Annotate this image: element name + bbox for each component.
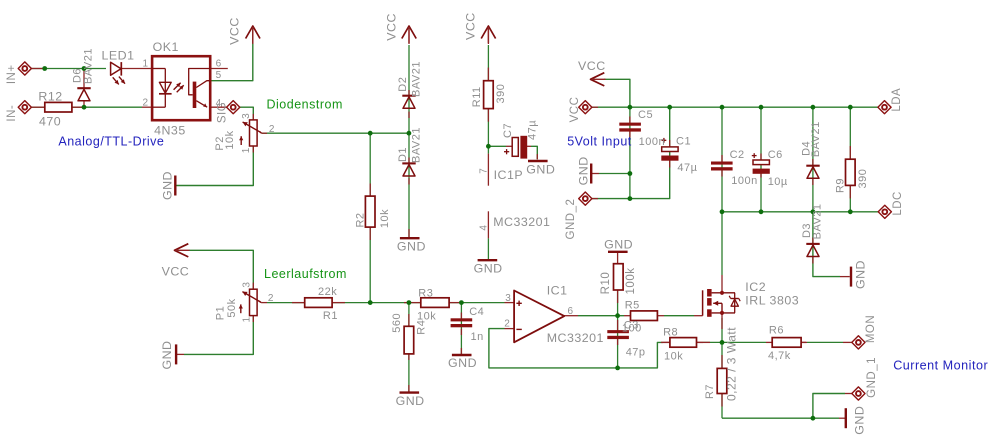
svg-text:VCC: VCC [569,97,581,123]
svg-text:GND: GND [604,237,633,251]
svg-text:10µ: 10µ [768,176,788,188]
svg-text:6: 6 [216,59,222,70]
svg-text:C2: C2 [730,149,745,161]
svg-text:GND_1: GND_1 [866,357,878,398]
svg-text:Current Monitor: Current Monitor [893,358,988,372]
svg-text:IN-: IN- [6,105,18,122]
svg-text:GND: GND [397,239,426,253]
svg-text:OK1: OK1 [153,40,179,54]
svg-text:3: 3 [241,113,252,119]
svg-text:5: 5 [216,70,222,81]
svg-text:P1: P1 [214,306,226,320]
svg-text:BAV21: BAV21 [83,48,95,84]
svg-text:VCC: VCC [578,59,606,73]
svg-text:47µ: 47µ [677,162,697,174]
svg-text:2: 2 [143,97,149,108]
svg-text:1: 1 [241,147,252,153]
svg-text:Analog/TTL-Drive: Analog/TTL-Drive [58,134,164,148]
svg-text:MC33201: MC33201 [547,331,604,345]
svg-text:Diodenstrom: Diodenstrom [267,97,343,111]
svg-text:MON: MON [865,315,877,343]
svg-text:R10: R10 [600,272,612,295]
svg-text:6: 6 [568,306,574,317]
svg-text:C6: C6 [768,149,783,161]
svg-text:IC2: IC2 [745,280,766,294]
svg-text:2: 2 [269,124,275,135]
svg-text:BAV21: BAV21 [410,61,422,97]
svg-text:LED1: LED1 [102,49,135,63]
svg-text:IC1: IC1 [547,283,568,297]
svg-text:R8: R8 [663,326,678,338]
svg-text:R5: R5 [625,299,640,311]
svg-text:C5: C5 [638,109,653,121]
svg-text:R9: R9 [835,178,847,193]
svg-text:5Volt Input: 5Volt Input [567,135,632,149]
svg-text:100n: 100n [639,136,665,148]
svg-text:560: 560 [391,313,403,333]
svg-text:GND: GND [161,171,175,200]
svg-text:D2: D2 [397,77,409,92]
svg-text:4: 4 [216,98,222,109]
svg-text:MC33201: MC33201 [493,215,550,229]
svg-text:GND: GND [474,262,503,276]
svg-text:VCC: VCC [227,17,241,45]
svg-text:IRL 3803: IRL 3803 [745,294,799,308]
svg-text:10k: 10k [379,209,391,228]
svg-text:R2: R2 [354,212,366,227]
svg-text:GND: GND [854,260,868,289]
svg-text:Leerlaufstrom: Leerlaufstrom [264,267,347,281]
svg-text:390: 390 [495,84,507,104]
svg-text:C1: C1 [676,135,691,147]
svg-text:4,7k: 4,7k [768,350,791,362]
svg-text:R3: R3 [418,288,433,300]
svg-text:IN+: IN+ [6,64,18,84]
svg-text:2: 2 [268,293,274,304]
svg-text:7: 7 [478,168,489,174]
svg-text:VCC: VCC [162,265,190,279]
svg-text:BAV21: BAV21 [810,121,822,157]
svg-text:22k: 22k [318,286,337,298]
svg-text:1n: 1n [471,331,484,343]
svg-text:GND: GND [448,356,477,370]
svg-text:IC1P: IC1P [494,168,524,182]
svg-text:R11: R11 [471,86,483,107]
svg-text:LDC: LDC [892,191,904,216]
svg-text:GND_2: GND_2 [565,199,577,240]
svg-text:10k: 10k [664,351,683,363]
svg-text:47p: 47p [626,347,646,359]
svg-text:C4: C4 [469,306,484,318]
svg-text:50k: 50k [226,298,238,317]
svg-text:1: 1 [242,316,253,322]
svg-text:10k: 10k [224,130,236,149]
svg-text:BAV21: BAV21 [410,127,422,163]
svg-text:470: 470 [39,115,61,129]
svg-text:390: 390 [857,169,869,189]
svg-text:100k: 100k [625,268,637,295]
svg-text:C7: C7 [502,123,514,138]
svg-text:GND: GND [577,156,591,185]
svg-text:R1: R1 [323,310,338,322]
svg-text:1: 1 [143,59,149,70]
svg-text:4: 4 [478,225,489,231]
svg-text:47µ: 47µ [527,120,539,140]
svg-text:3: 3 [505,293,511,304]
svg-text:2: 2 [504,319,510,330]
svg-text:GND: GND [160,340,174,369]
svg-text:3: 3 [242,282,253,288]
svg-text:C3: C3 [624,320,639,332]
svg-text:GND: GND [526,162,555,176]
svg-text:D1: D1 [397,147,409,162]
svg-text:LDA: LDA [891,88,903,112]
svg-text:R7: R7 [704,384,716,399]
svg-text:VCC: VCC [384,13,398,41]
svg-text:R4: R4 [415,320,427,335]
svg-text:GND: GND [396,394,425,408]
svg-text:GND: GND [853,406,867,435]
svg-text:VCC: VCC [463,12,477,40]
svg-text:0,22 / 3 Watt: 0,22 / 3 Watt [725,327,739,401]
svg-text:100n: 100n [731,175,757,187]
svg-text:R12: R12 [38,90,62,104]
svg-text:BAV21: BAV21 [811,203,823,239]
svg-text:R6: R6 [769,325,784,337]
